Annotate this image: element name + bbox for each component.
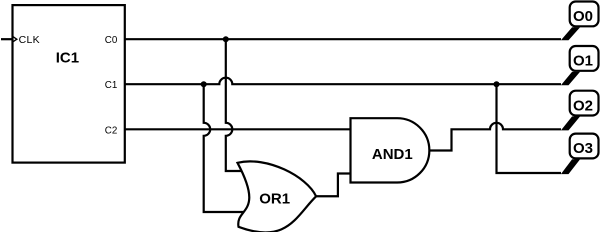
svg-text:IC1: IC1 (56, 49, 79, 66)
and-gate AND1 (351, 118, 430, 182)
svg-text:C1: C1 (105, 80, 118, 91)
svg-text:O1: O1 (573, 53, 593, 70)
svg-text:O3: O3 (573, 140, 593, 157)
junction dot on C1 row at O3 drop (494, 81, 500, 87)
svg-text:O0: O0 (573, 8, 593, 25)
IC1 box (13, 5, 125, 163)
wire O3 drop (C1 junction down to O3) (497, 84, 562, 173)
wire CLK stub (1, 38, 13, 40)
wire vertical A (C1 junction down to OR1 input B, hop over C2 row) (204, 84, 248, 212)
IC1 clock wedge (13, 36, 17, 42)
wire AND1 output to O2 (hop over O3 drop wire) (429, 123, 561, 151)
terminal flag O2 (561, 91, 599, 131)
wire C1 row (IC1 C1 to O1, hop over vertical B) (125, 78, 561, 85)
svg-text:C0: C0 (105, 35, 118, 46)
junction dot on C0 row (223, 36, 229, 42)
wire vertical B (C0 junction down to OR1 input A, hop over C2 row) (226, 39, 246, 171)
junction dot on C1 row at vertical A (201, 81, 207, 87)
wire OR1 output to AND1 input B (316, 174, 351, 197)
svg-text:C2: C2 (105, 125, 118, 136)
wire C2 row (IC1 C2 to AND1 input A) (125, 128, 351, 130)
svg-text:AND1: AND1 (372, 146, 413, 163)
svg-text:CLK: CLK (19, 34, 40, 46)
terminal flag O1 (561, 46, 599, 85)
terminal flag O0 (561, 2, 599, 41)
terminal flag O3 (561, 134, 599, 175)
wire C0 row (IC1 C0 to O0) (125, 38, 561, 40)
svg-text:OR1: OR1 (259, 191, 290, 208)
svg-text:O2: O2 (573, 97, 593, 114)
or-gate OR1 (238, 161, 317, 232)
